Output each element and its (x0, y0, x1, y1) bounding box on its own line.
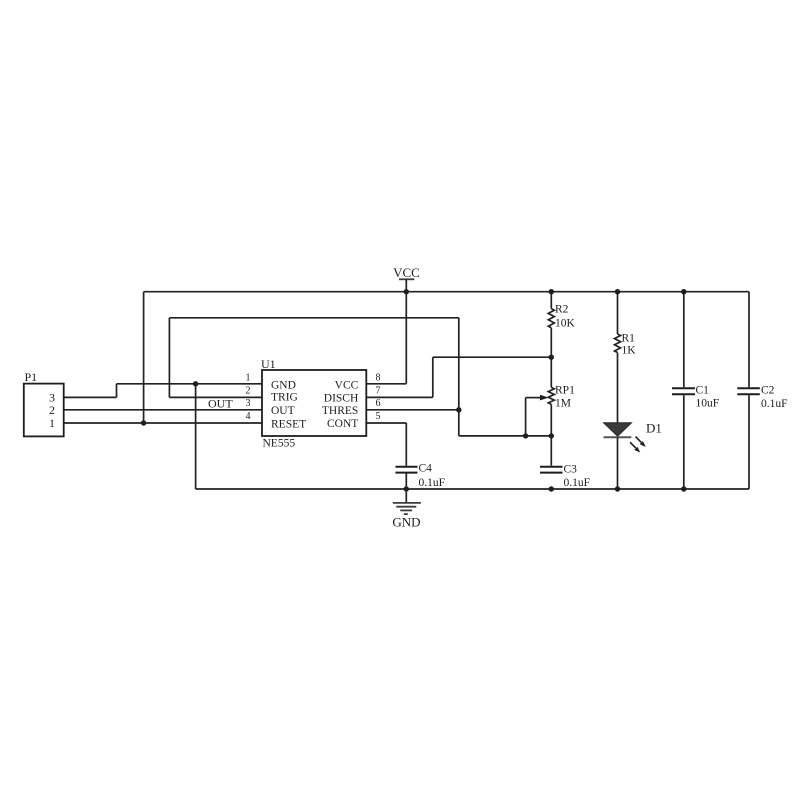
wire RP1 wiper arm (526, 397, 541, 399)
value label R2 10K (555, 303, 576, 329)
capacitor C2 (737, 292, 760, 489)
wire VCC top rail (144, 291, 749, 293)
svg-text:0.1uF: 0.1uF (564, 477, 591, 489)
wire pin8 riser to VCC rail (405, 292, 407, 384)
svg-text:P1: P1 (25, 370, 38, 384)
value label R1 1K (622, 332, 637, 356)
node junction GND row (193, 381, 198, 386)
svg-text:7: 7 (376, 386, 381, 397)
IC U1 NE555 timer (261, 357, 366, 450)
wire pin5 drop to C4 (405, 423, 407, 466)
svg-text:10K: 10K (555, 317, 576, 329)
ground symbol GND (392, 489, 420, 529)
svg-text:C4: C4 (419, 463, 433, 475)
wire RP1 bottom row (459, 435, 552, 437)
svg-text:NE555: NE555 (263, 438, 296, 450)
wire RP1 wiper riser (525, 398, 527, 436)
svg-text:5: 5 (376, 411, 381, 422)
wire D1 cathode to ground rail (617, 437, 619, 489)
wire pin5 horizontal (366, 422, 406, 424)
node junction VCC tap (404, 289, 409, 294)
wire bottom ground rail (196, 488, 749, 490)
svg-text:0.1uF: 0.1uF (419, 477, 446, 489)
LED D1 (604, 423, 646, 453)
svg-text:C1: C1 (696, 385, 710, 397)
svg-text:CONT: CONT (327, 418, 358, 430)
svg-text:1: 1 (49, 416, 55, 430)
value label C4 0.1uF (419, 463, 446, 490)
wire pin7 horizontal (366, 396, 433, 398)
svg-text:DISCH: DISCH (324, 393, 359, 405)
value label C1 10uF (696, 385, 720, 410)
capacitor C4 (396, 467, 418, 473)
wire GND row to pin1 (117, 383, 263, 385)
node junction D1 ground (615, 486, 620, 491)
wire P1 pin3 step up (116, 384, 118, 398)
capacitor C1 (672, 292, 695, 489)
node junction pin6 on THRES drop (456, 407, 461, 412)
wire pin7 to R2 bottom (433, 356, 552, 358)
svg-text:D1: D1 (646, 421, 662, 436)
node junction C1 top (681, 289, 686, 294)
svg-text:1: 1 (246, 373, 251, 384)
resistor R1 (615, 292, 621, 424)
node junction C4 ground (404, 486, 409, 491)
node junction RP1 bottom terminal (549, 433, 554, 438)
node junction R2 bottom pin7 (549, 355, 554, 360)
svg-text:U1: U1 (261, 357, 276, 371)
node junction wiper bottom (523, 433, 528, 438)
svg-text:GND: GND (392, 514, 420, 529)
svg-text:3: 3 (246, 398, 251, 409)
wire pin6 horizontal (366, 409, 459, 411)
svg-text:GND: GND (271, 380, 296, 392)
svg-text:R2: R2 (555, 303, 569, 315)
node junction VCC drop on RESET row (141, 420, 146, 425)
svg-text:10uF: 10uF (696, 397, 720, 409)
value label C2 0.1uF (761, 385, 788, 410)
power symbol VCC (393, 265, 420, 292)
wire TRIG loop left drop (168, 318, 170, 398)
wire RESET row P1 to pin4 (64, 422, 262, 424)
svg-text:8: 8 (376, 373, 381, 384)
value label C3 0.1uF (564, 464, 591, 490)
svg-text:4: 4 (246, 411, 251, 422)
wire GND left drop to bottom rail (195, 384, 197, 489)
connector P1 (24, 370, 64, 436)
value label RP1 1M (555, 385, 575, 410)
svg-text:6: 6 (376, 398, 381, 409)
wire TRIG row to pin2 (169, 396, 262, 398)
resistor R2 (548, 292, 554, 388)
svg-text:RP1: RP1 (555, 385, 575, 397)
node junction C1 ground (681, 486, 686, 491)
svg-text:VCC: VCC (335, 379, 359, 391)
svg-text:2: 2 (246, 386, 251, 397)
svg-text:OUT: OUT (271, 405, 295, 417)
svg-text:1M: 1M (555, 397, 571, 409)
svg-text:0.1uF: 0.1uF (761, 398, 788, 410)
svg-text:1K: 1K (622, 345, 637, 357)
potentiometer RP1 (540, 387, 554, 436)
svg-text:THRES: THRES (322, 405, 358, 417)
svg-text:2: 2 (49, 403, 55, 417)
wire pin7 riser (432, 357, 434, 397)
node junction R2 top (549, 289, 554, 294)
wire OUT row P1 to pin3 (64, 409, 262, 411)
svg-text:C3: C3 (564, 464, 578, 476)
node junction R1 top (615, 289, 620, 294)
svg-text:RESET: RESET (271, 418, 306, 430)
wire TRIG loop top rail (169, 317, 458, 319)
wire VCC rail left drop to RESET row (143, 292, 145, 423)
wire pin8 horizontal (366, 383, 406, 385)
svg-text:OUT: OUT (208, 397, 233, 411)
capacitor C3 (540, 436, 563, 473)
svg-text:R1: R1 (622, 332, 636, 344)
svg-text:C2: C2 (761, 385, 775, 397)
wire THRES vertical drop (458, 318, 460, 436)
svg-text:VCC: VCC (393, 265, 420, 280)
wire P1 pin3 horizontal (64, 396, 117, 398)
wire C4 bottom to ground rail (405, 474, 407, 490)
svg-text:TRIG: TRIG (271, 392, 298, 404)
node junction C3 ground (549, 486, 554, 491)
